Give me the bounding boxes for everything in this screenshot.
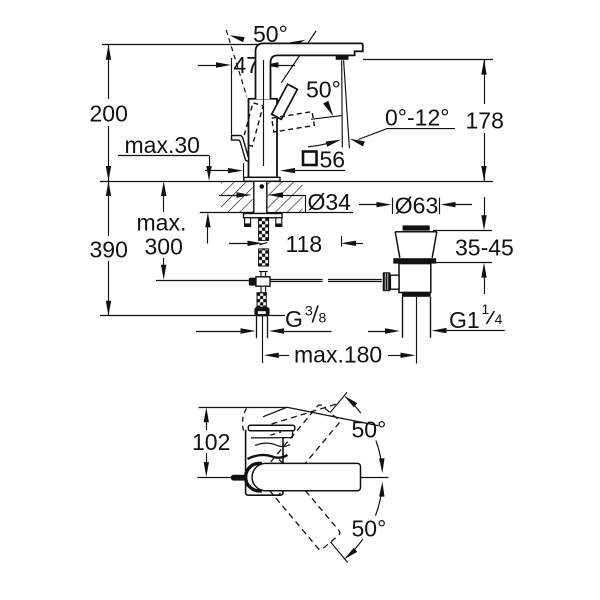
47 extension line bbox=[231, 58, 233, 135]
svg-text:35-45: 35-45 bbox=[455, 234, 514, 260]
swivel arc lower mid arrow bbox=[379, 482, 384, 497]
max300 dim line lower bbox=[163, 258, 165, 265]
102 arrow up bbox=[204, 407, 209, 422]
max180 dim line left bbox=[279, 355, 289, 357]
threaded shank through deck bbox=[254, 181, 267, 213]
200 dim line upper bbox=[108, 45, 110, 99]
47 dim line left bbox=[198, 65, 217, 67]
56 dim line right / underline bbox=[295, 170, 345, 172]
pop-up rod bottom edge right part bbox=[328, 281, 382, 283]
drain bottom flange bbox=[402, 292, 431, 297]
max.30 arrow down bbox=[206, 166, 211, 181]
svg-text:300: 300 bbox=[145, 234, 183, 260]
screw foot right bbox=[275, 224, 282, 227]
max180 arrow left bbox=[264, 353, 279, 358]
drain plug cap bbox=[403, 225, 430, 230]
swivel arc lower seg1 bbox=[375, 485, 382, 515]
svg-text:50°: 50° bbox=[306, 77, 341, 103]
closed lever extension line bbox=[311, 116, 342, 120]
supply pipe right edge bbox=[267, 316, 269, 338]
extension line spout top (200 dim) bbox=[102, 44, 291, 46]
pop-up pull rod knob bbox=[232, 136, 249, 162]
screw foot left bbox=[244, 224, 251, 227]
swivel arc lower end arrow bbox=[344, 548, 357, 560]
178 dim line upper bbox=[484, 60, 486, 104]
cross fitting bbox=[256, 277, 270, 286]
svg-text:118: 118 bbox=[286, 231, 323, 257]
supply pipe centerline bbox=[262, 316, 264, 363]
aerator outlet bbox=[336, 56, 349, 60]
200 dim line lower bbox=[108, 126, 110, 181]
max180 arrow right bbox=[401, 353, 416, 358]
svg-text:max.180: max.180 bbox=[294, 342, 382, 368]
hose stub lower bbox=[261, 286, 266, 293]
faucet body plan view bbox=[246, 430, 283, 495]
G3/8 nut slot bbox=[258, 311, 266, 314]
body surface curve plan bbox=[255, 443, 290, 447]
35-45 ref line bottom bbox=[433, 262, 492, 264]
swivel arc upper mid arrow bbox=[379, 458, 384, 473]
O63 arrow right bbox=[377, 202, 392, 207]
swivel arc upper seg2 bbox=[376, 441, 382, 470]
178 dim line lower bbox=[484, 133, 486, 181]
svg-text:102: 102 bbox=[192, 429, 230, 455]
G3/8 underline bbox=[284, 331, 332, 333]
riser centerline bbox=[263, 60, 265, 166]
102 dim line lower bbox=[206, 453, 208, 462]
50deg mid arrowhead bbox=[323, 101, 333, 117]
118 extension tick bbox=[341, 236, 343, 247]
O34 dim line left bbox=[219, 195, 237, 197]
O34 leader bbox=[283, 195, 305, 197]
spout centerline plan bbox=[361, 477, 389, 479]
47 dim line right bbox=[279, 65, 296, 67]
56 arrow right bbox=[228, 168, 243, 173]
hose stub upper bbox=[261, 272, 266, 277]
178 arrow up bbox=[481, 60, 486, 75]
max.30 lower arrow up bbox=[205, 212, 210, 227]
47 arrow left bbox=[264, 62, 279, 67]
G1 underline bbox=[447, 330, 505, 332]
swivel arc lower seg2 bbox=[346, 539, 363, 558]
svg-text:50°: 50° bbox=[352, 516, 387, 542]
solid lever axis line bbox=[281, 31, 316, 83]
max300 arrow down bbox=[161, 265, 166, 280]
56 dim line left bbox=[205, 170, 229, 172]
lever blade dashed raised end cap bbox=[243, 409, 247, 431]
390 arrow down bbox=[106, 301, 111, 316]
max300 dim line upper bbox=[163, 196, 165, 212]
390 dim line lower bbox=[108, 261, 110, 316]
102 dim line upper bbox=[206, 422, 208, 430]
lever blade top edges plan bbox=[263, 407, 379, 426]
47 arrow right bbox=[216, 62, 231, 67]
stream angle arrow bbox=[326, 140, 341, 147]
O34 arrow right bbox=[237, 192, 252, 197]
lever handle dashed closed position bbox=[272, 112, 315, 132]
200 arrow up bbox=[106, 45, 111, 60]
dashed lever axis left 50deg bbox=[226, 30, 247, 97]
max.30 leader bbox=[209, 156, 211, 167]
svg-text:Ø34: Ø34 bbox=[308, 189, 352, 215]
threaded rod lower segment bbox=[259, 249, 269, 266]
390 dim line upper bbox=[108, 181, 110, 236]
base plate escutcheon bbox=[244, 177, 280, 181]
max300 bottom ref / rod line left bbox=[156, 280, 249, 282]
O63 dim line left bbox=[359, 204, 377, 206]
mounting screw left bbox=[245, 218, 251, 224]
svg-text:56: 56 bbox=[320, 146, 346, 172]
O34 leader vertical bbox=[305, 195, 307, 213]
O63 tick left bbox=[392, 198, 394, 214]
O34 arrow left bbox=[268, 192, 283, 197]
102 bottom reference line bbox=[198, 477, 243, 479]
G3/8 dim line left bbox=[196, 331, 241, 333]
lever handle raised 50deg (solid) bbox=[272, 84, 298, 119]
countertop hatch right band bbox=[268, 182, 303, 213]
lever blade dashed raised position edge 1 bbox=[252, 403, 340, 430]
0-12deg arrowhead bbox=[350, 139, 365, 147]
max.30 lower arrow shaft bbox=[207, 228, 209, 244]
svg-text:Ø63: Ø63 bbox=[395, 192, 438, 218]
56 arrow left bbox=[280, 168, 295, 173]
G3/8 nut bbox=[254, 307, 269, 316]
O63 arrow left bbox=[441, 202, 456, 207]
countertop underside line / O34 underline bbox=[200, 212, 353, 214]
35-45 ref line top bbox=[433, 230, 492, 232]
svg-text:G1: G1 bbox=[449, 307, 480, 333]
O63 tick right bbox=[439, 198, 441, 214]
spout swivel dashed position lower 50deg bbox=[258, 459, 358, 571]
svg-text:0°-12°: 0°-12° bbox=[385, 105, 449, 131]
35-45 arrow up bbox=[481, 263, 486, 278]
118 dim line left bbox=[229, 243, 248, 245]
G3/8 slash bbox=[312, 306, 318, 323]
118 arrow right bbox=[248, 241, 263, 246]
G3/8 thread block bbox=[257, 293, 266, 307]
G1 slash bbox=[487, 311, 495, 324]
drain centerline bbox=[416, 297, 418, 364]
body top edge plan bbox=[251, 437, 292, 439]
lever bar plan view bbox=[248, 425, 294, 431]
countertop hatch left band bbox=[221, 182, 253, 213]
spout cap thick arc bbox=[246, 463, 262, 491]
178 arrow down bbox=[481, 166, 486, 181]
square symbol 56 bbox=[303, 152, 317, 166]
svg-text:4: 4 bbox=[495, 311, 503, 327]
svg-text:8: 8 bbox=[319, 310, 327, 326]
svg-text:390: 390 bbox=[90, 237, 128, 263]
pop-up rod top edge right part bbox=[328, 279, 382, 281]
side pin plan view bbox=[231, 475, 247, 481]
svg-text:max.: max. bbox=[137, 210, 187, 236]
mounting screw right bbox=[276, 218, 282, 224]
fixing screw hole bbox=[260, 184, 265, 189]
hose top tick bbox=[259, 271, 268, 273]
cross fitting collar bbox=[249, 278, 256, 286]
390 bottom reference line bbox=[100, 315, 285, 317]
0-12deg leader line bbox=[358, 129, 455, 140]
spout swivel dashed position upper 50deg bbox=[258, 383, 358, 495]
pop-up rod top edge left part bbox=[270, 279, 323, 281]
water stream left line bbox=[341, 60, 344, 147]
svg-text:G: G bbox=[285, 306, 303, 332]
svg-text:max.30: max.30 bbox=[125, 132, 200, 158]
supply pipe left edge bbox=[256, 316, 258, 338]
35-45 arrow down bbox=[481, 215, 486, 230]
G3/8 arrow right bbox=[241, 328, 256, 333]
G1 arrow left bbox=[432, 328, 447, 333]
200 arrow down bbox=[106, 166, 111, 181]
max300 arrow up bbox=[161, 181, 166, 196]
drain upper cone bbox=[395, 232, 437, 258]
mounting washer plate bbox=[244, 214, 283, 218]
water stream right line bbox=[344, 60, 350, 148]
390 arrow up bbox=[106, 181, 111, 196]
extension line spout outlet (178) bbox=[363, 59, 493, 61]
knob ridge 2 bbox=[387, 273, 389, 290]
50deg left arrowhead bbox=[230, 35, 245, 42]
118 dim line right bbox=[356, 243, 363, 245]
G1 arrow right bbox=[385, 328, 400, 333]
lever handle dashed left position bbox=[242, 103, 263, 146]
drain valve body bbox=[399, 264, 431, 293]
svg-text:3: 3 bbox=[305, 303, 313, 319]
knob ridge 1 bbox=[384, 273, 386, 290]
countertop top surface line bbox=[100, 181, 493, 183]
threaded rod upper segment bbox=[259, 218, 269, 241]
swivel arc upper seg1 bbox=[346, 397, 361, 413]
O63 dim line right bbox=[456, 204, 473, 206]
tailpipe left edge bbox=[402, 297, 404, 338]
body corner edge plan bbox=[292, 431, 294, 438]
rod break tick bbox=[259, 242, 267, 244]
56 extension tick bbox=[243, 163, 245, 178]
102 arrow down bbox=[204, 462, 209, 477]
svg-text:1: 1 bbox=[482, 301, 490, 317]
118 arrow left bbox=[341, 241, 356, 246]
spout bar plan view bbox=[252, 463, 360, 490]
G1 dim line left bbox=[368, 331, 385, 333]
spout and riser outline bbox=[256, 43, 363, 99]
drain side port bbox=[390, 275, 399, 289]
drain knurled knob bbox=[383, 272, 391, 291]
pop-up rod bottom edge left part bbox=[270, 281, 323, 283]
stream angle arc bbox=[308, 142, 333, 147]
swivel arc upper end arrow bbox=[344, 396, 357, 408]
drain seal ring bbox=[393, 258, 436, 263]
35-45 dim line lower bbox=[484, 278, 486, 295]
faucet body bbox=[249, 99, 278, 178]
cartridge edge curve plan bbox=[248, 455, 288, 459]
max180 dim line right bbox=[388, 355, 401, 357]
102 top reference line bbox=[199, 407, 287, 409]
50deg right arrowhead bbox=[291, 40, 306, 48]
35-45 dim line upper bbox=[484, 197, 486, 216]
svg-text:178: 178 bbox=[466, 107, 504, 133]
max.30 underline bbox=[118, 155, 209, 157]
svg-text:200: 200 bbox=[90, 101, 128, 127]
G3/8 arrow left bbox=[269, 328, 284, 333]
tailpipe right edge bbox=[430, 297, 432, 338]
svg-text:50°: 50° bbox=[352, 417, 387, 443]
lever blade dashed raised position edge 2 bbox=[250, 432, 281, 442]
